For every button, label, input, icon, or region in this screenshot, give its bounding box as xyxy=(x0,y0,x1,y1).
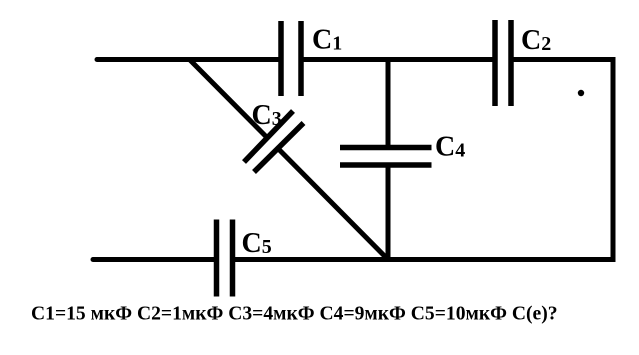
svg-text:C2: C2 xyxy=(521,25,551,56)
svg-text:C3: C3 xyxy=(252,100,282,131)
capacitor C5 xyxy=(217,220,233,297)
wire top-right corner and right side xyxy=(233,60,614,260)
wire diagonal upper (top wire to C3) xyxy=(190,60,268,139)
wire middle vertical lower (C4 to bottom node) xyxy=(386,165,391,260)
wire top between C1 and C2 xyxy=(301,57,495,62)
wire bottom-left segment xyxy=(93,257,217,262)
capacitor C1 xyxy=(281,21,301,96)
capacitor C2 xyxy=(495,20,511,106)
svg-text:C1: C1 xyxy=(312,25,342,56)
wire middle vertical upper (node to C4) xyxy=(386,60,391,148)
node dot xyxy=(578,90,584,96)
svg-text:C4: C4 xyxy=(435,132,465,163)
capacitor C3 xyxy=(244,111,304,172)
svg-text:C1=15 мкФ C2=1мкФ C3=4мкФ C4=9: C1=15 мкФ C2=1мкФ C3=4мкФ C4=9мкФ C5=10м… xyxy=(31,304,558,325)
capacitor C4 xyxy=(340,148,432,166)
wire diagonal lower (C3 to bottom node) xyxy=(278,149,388,260)
svg-text:C5: C5 xyxy=(242,228,272,259)
wire top-left segment xyxy=(97,57,281,62)
